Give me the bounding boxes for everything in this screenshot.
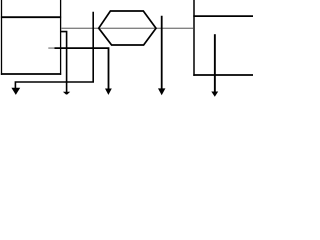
- wire: left box right edge: [60, 0, 62, 75]
- gray fade tail of long connector: [48, 47, 54, 49]
- wire: left box left edge: [1, 0, 3, 75]
- preparation hexagon H1: [99, 11, 156, 45]
- process box B1 (left, clipped at top of image): [1, 0, 61, 75]
- wire: left box bottom edge: [1, 73, 61, 75]
- arrowhead A1: [11, 88, 20, 95]
- connector: long horizontal from inside left box to arrow A3: [55, 48, 109, 89]
- wire: right box left edge: [193, 0, 195, 76]
- process box B2 (right, clipped at top and right of image): [193, 0, 253, 76]
- arrowhead A3: [105, 89, 112, 95]
- connector: right box inner vertical down to arrow A5: [214, 34, 216, 92]
- wire: right box bottom edge: [193, 74, 253, 76]
- arrowhead A4: [158, 88, 165, 95]
- connector: right flank vertical down to arrow A4: [161, 16, 163, 89]
- arrowhead A5: [211, 92, 218, 97]
- connector: stub from left box down to short arrow A2: [60, 32, 67, 92]
- gray bus line between the boxes: [61, 27, 193, 29]
- arrowhead A2 (squat): [63, 92, 70, 95]
- wire: right box top divider: [193, 15, 253, 17]
- connector: left flank vertical, elbow left, down to arrow A1: [15, 12, 93, 89]
- wire: left box top divider: [1, 16, 61, 18]
